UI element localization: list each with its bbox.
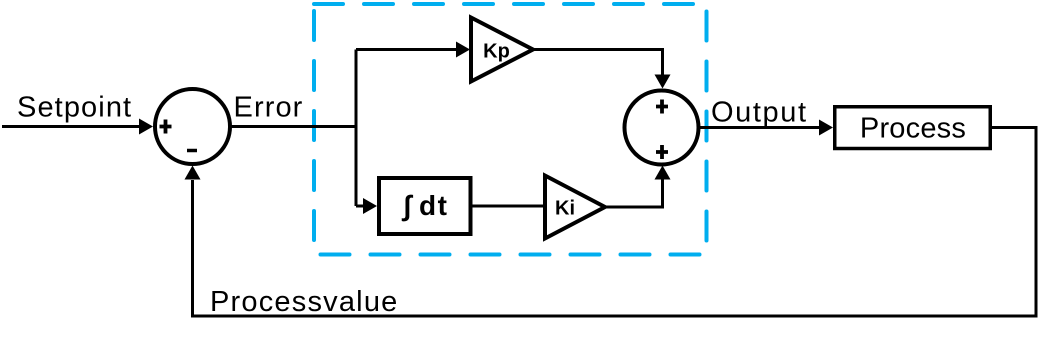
svg-text:Setpoint: Setpoint [17,92,132,124]
arrowhead into integrator box [363,198,377,214]
wire Ki output to summing junction S2 [605,179,663,207]
plus sign S2 bottom [656,145,668,159]
svg-text:∫ dt: ∫ dt [402,190,449,222]
arrowhead into S2 bottom [655,166,671,180]
wire output line [700,126,819,129]
process block [835,107,991,149]
gain block Ki [545,176,605,239]
svg-text:Ki: Ki [555,198,575,220]
summing junction S1 [155,89,230,164]
gain block Kp [471,18,533,82]
arrowhead into S2 top [655,75,671,89]
svg-text:Output: Output [711,97,808,129]
wire feedback loop [193,128,1037,317]
dashed controller boundary box [314,4,707,255]
wire branch vertical [355,50,358,207]
wire Kp output to summing junction S2 [533,50,663,76]
arrowhead into Process [819,120,833,136]
svg-text:Kp: Kp [483,41,510,63]
plus sign S1 [160,120,172,134]
summing junction S2 [625,91,699,165]
wire setpoint input [2,125,140,128]
wire error line [230,125,356,128]
arrowhead into S1 bottom [185,166,201,180]
wire integrator to Ki [472,205,546,208]
arrowhead into summing junction S1 [139,119,153,135]
svg-text:Error: Error [234,92,304,124]
plus sign S2 top [656,100,668,114]
wire bottom branch to integrator [356,205,364,208]
minus sign S1 [187,149,197,153]
wire top branch to Kp [356,48,457,51]
integrator block [379,178,471,234]
svg-text:Processvalue: Processvalue [210,286,399,318]
arrowhead into Kp [456,42,470,58]
svg-text:Process: Process [860,113,966,145]
